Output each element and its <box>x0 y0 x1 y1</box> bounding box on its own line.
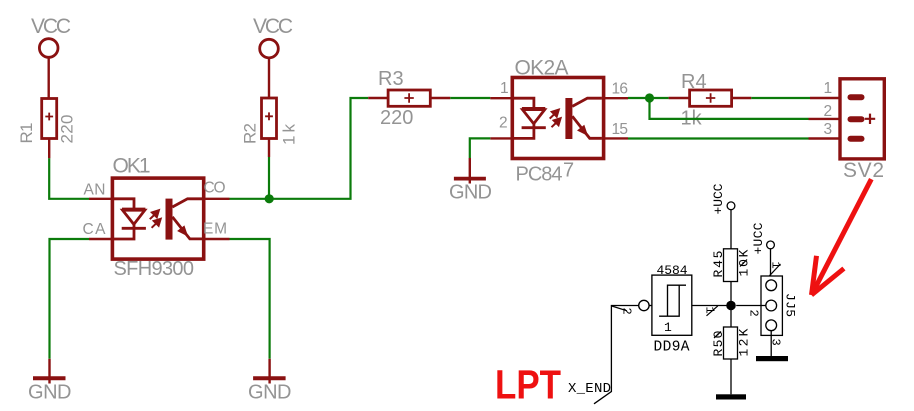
svg-text:GND: GND <box>28 382 72 404</box>
svg-text:16: 16 <box>612 80 629 97</box>
wire R1 to OK1 AN <box>49 158 89 199</box>
ground (below R50) <box>716 394 746 399</box>
svg-text:GND: GND <box>248 382 292 404</box>
svg-text:AN: AN <box>84 181 106 198</box>
svg-text:R3: R3 <box>378 68 404 90</box>
wire R3 to OK2A pin1 <box>450 97 490 99</box>
svg-text:+UCC: +UCC <box>751 222 766 254</box>
svg-text:1: 1 <box>768 262 782 269</box>
JJ5 pin number 1 <box>768 262 782 276</box>
OK2A light arrows <box>550 110 561 128</box>
svg-text:JJ5: JJ5 <box>783 293 798 317</box>
R45 value 10K (slashed zero) <box>740 260 747 267</box>
svg-text:OK1: OK1 <box>113 155 151 178</box>
node (DD9A out / R45 / R50 / JJ5.2) <box>726 301 736 311</box>
svg-text:X_END: X_END <box>568 381 611 397</box>
power VCC (second) <box>260 39 279 98</box>
wire node to JJ5 pin2 <box>736 305 766 307</box>
wire EM to GND (right) <box>230 239 270 359</box>
OK2A pin 16 stub <box>602 97 628 99</box>
optocoupler OK1 <box>112 178 203 259</box>
svg-text:CO: CO <box>204 179 226 196</box>
junction node (net A) <box>645 93 654 102</box>
resistor R45 <box>724 249 738 282</box>
ground GND (mid) <box>454 158 486 184</box>
svg-text:SV2: SV2 <box>843 159 884 182</box>
svg-text:R4: R4 <box>681 71 707 93</box>
OK2A pin 2 stub <box>490 137 514 139</box>
annotation arrow (red) <box>812 179 872 295</box>
wire DD9A input to X_END <box>594 306 639 404</box>
resistor R4 <box>669 90 752 106</box>
SV2 pad 2 <box>848 116 865 122</box>
OK1 light arrows <box>150 210 161 228</box>
svg-text:1: 1 <box>703 307 717 314</box>
svg-text:LPT: LPT <box>495 362 561 408</box>
ground (below JJ5) <box>756 356 788 361</box>
svg-text:CA: CA <box>83 221 107 238</box>
svg-text:1: 1 <box>664 320 672 335</box>
pin number 2 (DD9A input) <box>612 306 634 315</box>
svg-text:SFH9300: SFH9300 <box>114 258 195 280</box>
wire CO net <box>230 98 369 199</box>
OK1 pin EM stub <box>202 238 230 240</box>
OK2A internal phototransistor <box>565 98 602 139</box>
SV2 pin2 stub <box>809 118 849 120</box>
svg-text:+UCC: +UCC <box>711 183 726 214</box>
junction node (R2/CO) <box>265 194 274 203</box>
R50 label (slashed zero) <box>714 332 721 339</box>
wire R50 to ground <box>730 359 732 394</box>
svg-text:15: 15 <box>612 121 629 138</box>
SV2 pin1 stub <box>810 97 848 99</box>
svg-text:EM: EM <box>203 221 227 238</box>
svg-text:R45: R45 <box>711 251 726 278</box>
wire R45 to node <box>730 282 732 303</box>
svg-text:220: 220 <box>380 107 413 129</box>
OK1 pin AN stub <box>89 198 114 200</box>
svg-text:1: 1 <box>824 80 833 97</box>
svg-text:R50: R50 <box>711 331 726 357</box>
svg-text:DD9A: DD9A <box>654 340 690 356</box>
OK2A pin 1 stub <box>490 97 514 99</box>
optocoupler OK2A <box>512 78 603 159</box>
wire pin16 to junction to R4 <box>628 97 669 99</box>
SV2 pin3 stub <box>809 137 849 139</box>
svg-text:7: 7 <box>563 160 574 182</box>
wire JJ5 pin3 to ground <box>770 331 772 356</box>
svg-text:3: 3 <box>769 339 783 346</box>
svg-text:220: 220 <box>58 115 77 144</box>
power VCC (left) <box>39 39 58 99</box>
svg-text:1: 1 <box>500 80 509 97</box>
svg-text:12K: 12K <box>737 328 752 356</box>
power +UCC (terminal 1) <box>727 202 735 249</box>
svg-text:PC84: PC84 <box>516 164 563 186</box>
svg-text:2: 2 <box>824 103 833 120</box>
svg-text:R2: R2 <box>241 123 260 144</box>
resistor R2 <box>262 98 277 157</box>
ground GND (right) <box>253 359 286 384</box>
connector SV2 <box>840 79 884 159</box>
resistor R1 <box>42 99 57 159</box>
svg-text:VCC: VCC <box>253 15 293 38</box>
wire DD9A out to node <box>692 305 731 307</box>
OK2A internal LED <box>514 98 546 138</box>
SV2 pad 3 <box>848 136 865 142</box>
resistor R3 <box>368 90 450 106</box>
wire junction to SV2 pin2 <box>650 98 809 119</box>
resistor R50 <box>724 327 738 359</box>
wire CA to GND (left) <box>50 239 90 359</box>
OK1 internal phototransistor <box>166 199 203 240</box>
svg-text:OK2A: OK2A <box>515 57 569 80</box>
svg-text:4584: 4584 <box>657 263 688 278</box>
SV2 plus mark <box>865 114 875 124</box>
wire node to R50 <box>730 309 732 327</box>
svg-text:GND: GND <box>449 182 492 204</box>
svg-text:2: 2 <box>747 310 761 317</box>
OK1 pin CO stub <box>202 198 230 200</box>
ground GND (left) <box>33 359 66 384</box>
OK1 internal LED <box>114 199 146 239</box>
wire R2 to junction <box>268 157 270 196</box>
svg-text:10K: 10K <box>737 249 752 276</box>
wire R4 to SV2 pin1 <box>751 97 810 99</box>
svg-text:R1: R1 <box>17 123 36 144</box>
inverter DD9A <box>639 275 692 335</box>
OK1 pin CA stub <box>89 238 114 240</box>
svg-text:VCC: VCC <box>31 15 71 38</box>
OK2A pin 15 stub <box>602 137 628 139</box>
svg-text:2: 2 <box>620 308 634 315</box>
jumper JJ5 <box>761 276 782 335</box>
SV2 pad 1 <box>848 94 865 100</box>
wire pin15 to SV2 pin3 <box>628 137 809 139</box>
power +UCC (terminal 2) <box>767 241 775 280</box>
pin number 1 (DD9A output) <box>703 306 718 316</box>
svg-text:3: 3 <box>824 121 833 138</box>
wire pin2 to GND (mid) <box>470 138 491 158</box>
svg-text:2: 2 <box>499 115 508 132</box>
